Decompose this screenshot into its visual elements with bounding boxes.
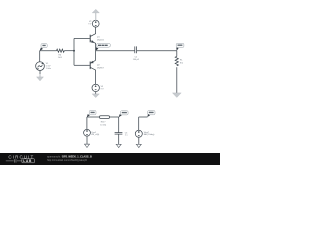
label V1 values bbox=[46, 63, 51, 70]
voltage source V2 (DC 9V) bbox=[92, 20, 99, 27]
svg-text:8 Ω: 8 Ω bbox=[180, 63, 184, 65]
label RL bbox=[180, 59, 184, 64]
svg-text:10 mΩ: 10 mΩ bbox=[100, 124, 106, 126]
wire C2 to RL bbox=[137, 50, 177, 52]
voltage source V3 (DC 9V) bbox=[92, 84, 99, 91]
label V3 bbox=[101, 86, 105, 91]
ground bottom-left bbox=[84, 144, 90, 147]
svg-text:http://circuitlab.com/c/6te6f/: http://circuitlab.com/c/6te6f/gnakvp5 bbox=[47, 159, 87, 162]
junction base rail bbox=[73, 50, 75, 52]
wire V1 bottom bbox=[39, 70, 41, 74]
node flag OUT (highlighted) bbox=[96, 43, 111, 50]
ground bottom-middle bbox=[116, 144, 122, 147]
battery source Vbat bbox=[135, 130, 142, 137]
svg-text:1k Ω: 1k Ω bbox=[58, 57, 63, 59]
svg-text:100 µF: 100 µF bbox=[133, 59, 140, 61]
wire Cap1 bottom bbox=[86, 136, 88, 144]
wire shunt to middle column bbox=[110, 116, 119, 118]
wire left column to shunt bbox=[87, 116, 100, 118]
wire V1 top vertical bbox=[39, 51, 41, 62]
label Q2 bbox=[97, 64, 105, 69]
label V2 bbox=[88, 21, 92, 26]
ground bottom-right bbox=[136, 144, 142, 147]
wire Vbat bottom bbox=[138, 137, 140, 144]
wire middle column down bbox=[118, 117, 120, 133]
CircuitLab logo bbox=[6, 155, 35, 164]
transistor Q1 (NPN 2N2222) bbox=[90, 27, 95, 51]
node flag bottom-right column bbox=[147, 111, 155, 118]
label Rb value bbox=[58, 55, 63, 60]
ammeter shunt (stadium) bbox=[99, 116, 109, 119]
svg-text:apamarachi / DP2_WEEK_1_CLASS_: apamarachi / DP2_WEEK_1_CLASS_B bbox=[47, 156, 92, 159]
wire RL top bbox=[176, 51, 178, 57]
svg-text:2N2907: 2N2907 bbox=[97, 67, 105, 69]
node flag IN above V1 bbox=[40, 44, 48, 51]
voltage source V1 (AC) bbox=[36, 62, 45, 71]
watermark bar bbox=[0, 153, 220, 165]
wire Rb to base rail bbox=[64, 50, 74, 52]
wire RL bottom bbox=[176, 67, 178, 93]
resistor Rb bbox=[57, 49, 65, 52]
ground arrow under V3 bbox=[92, 94, 99, 98]
resistor RL bbox=[175, 56, 178, 65]
wire right column down bbox=[138, 117, 140, 130]
label Cap1 bbox=[91, 132, 99, 136]
label Q1 bbox=[97, 37, 105, 42]
label C2 bbox=[133, 57, 140, 61]
svg-text:2N2222: 2N2222 bbox=[97, 40, 105, 42]
wire to Q1 base bbox=[74, 38, 90, 40]
wire to Q2 base bbox=[74, 64, 90, 66]
watermark text bbox=[47, 156, 92, 163]
wire V1 top to Rb bbox=[40, 50, 57, 52]
ground arrow under RL bbox=[172, 93, 181, 98]
label C3 bbox=[125, 133, 128, 137]
capacitor C3 bbox=[115, 133, 123, 135]
label Vbat bbox=[144, 131, 155, 136]
voltmeter source Cap1 bbox=[84, 129, 91, 136]
svg-text:1 kHz: 1 kHz bbox=[46, 68, 51, 70]
wire left column down bbox=[86, 117, 88, 129]
svg-text:BAT(20deg): BAT(20deg) bbox=[144, 133, 155, 136]
svg-text:VM_v4(t): VM_v4(t) bbox=[91, 133, 99, 136]
node flag bottom-left column bbox=[87, 110, 96, 117]
wire output node to C2 bbox=[96, 50, 135, 52]
svg-text:1 u: 1 u bbox=[125, 134, 128, 136]
wire C3 bottom bbox=[118, 134, 120, 144]
capacitor C2 bbox=[135, 46, 137, 53]
wire V3 bottom bbox=[95, 92, 97, 94]
power arrow above V2 bbox=[92, 9, 99, 20]
wire right column stub bbox=[139, 116, 148, 118]
node flag bottom-middle column bbox=[119, 111, 128, 118]
node flag at RL top bbox=[176, 43, 184, 51]
wire Q1 emitter to Q2 emitter bbox=[95, 51, 97, 61]
wire base rail vertical bbox=[73, 39, 75, 66]
svg-text:LAB: LAB bbox=[23, 159, 32, 163]
transistor Q2 (PNP 2N2907) bbox=[90, 60, 95, 84]
label shunt bbox=[100, 122, 106, 127]
ground arrow under V1 bbox=[37, 74, 44, 81]
